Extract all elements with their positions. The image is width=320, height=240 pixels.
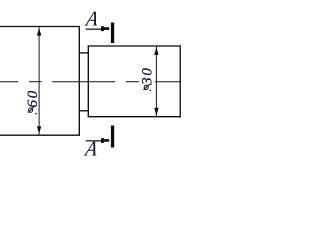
big cylinder top edge [0, 26, 80, 28]
small cylinder bottom edge [88, 116, 181, 118]
big cylinder right face [78, 26, 80, 136]
centerline dash 2 [29, 81, 42, 83]
dimension arrowhead D30 top [154, 47, 158, 55]
small cylinder top edge [88, 45, 181, 47]
section arrow line top [86, 28, 102, 30]
neck top shoulder [79, 52, 88, 54]
centerline dash 3 [52, 81, 115, 83]
svg-text:60: 60 [25, 89, 41, 108]
dimension line D60 [38, 27, 40, 135]
neck bottom shoulder [79, 110, 88, 112]
section cut bar bottom [111, 126, 114, 148]
dimension arrowhead D60 top [37, 28, 41, 36]
dimension arrowhead D60 bottom [37, 126, 41, 134]
dimension text D30 phi symbol [144, 84, 152, 91]
centerline dash 4 [126, 81, 139, 83]
svg-text:30: 30 [140, 66, 156, 86]
dimension line D30 [155, 47, 157, 117]
section arrow line bottom [86, 140, 102, 142]
small cylinder left face [87, 45, 89, 117]
dimension arrowhead D30 bottom [154, 108, 158, 116]
centerline dash 1 [0, 81, 18, 83]
svg-text:A: A [82, 138, 100, 161]
svg-text:A: A [83, 8, 101, 31]
dimension text D60 phi symbol [28, 107, 37, 115]
centerline dash 5 [155, 81, 181, 83]
section arrowhead bottom [101, 138, 109, 143]
section cut bar top [111, 23, 114, 44]
section arrowhead top [101, 26, 109, 31]
big cylinder bottom edge [0, 134, 80, 136]
small cylinder right face [179, 45, 181, 117]
